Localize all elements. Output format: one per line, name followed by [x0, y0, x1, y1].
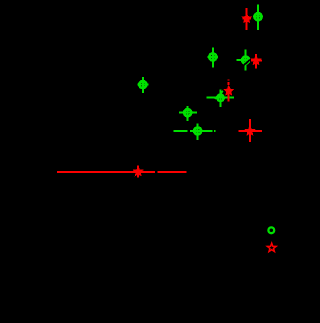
error bars G [138, 77, 149, 93]
error bars R4 [238, 119, 261, 142]
red star R4 [245, 126, 255, 135]
green circle GC4 [217, 95, 223, 101]
green circle GC2 [209, 53, 216, 60]
green diagonal arrow GC4 [215, 91, 223, 99]
green circle G [139, 81, 146, 88]
error bars R5 [57, 166, 187, 178]
error bars GC2 [207, 47, 218, 67]
green circle GC1 [255, 13, 262, 20]
green circle GC6 [194, 127, 201, 134]
green circle GC5 [184, 109, 191, 116]
error bars GC5 [179, 106, 197, 121]
black slash over GC3 [243, 58, 252, 66]
green circle GC3 [242, 57, 249, 64]
error bars GC4 [206, 89, 234, 106]
error bars R1 [242, 8, 251, 30]
error bars GC3 [236, 50, 250, 71]
error bars R2 [251, 54, 262, 69]
error bars GC6 [173, 123, 215, 140]
red star R3 [224, 86, 234, 95]
error bar R3 vertical dashed [228, 80, 230, 102]
red star R2 [251, 55, 261, 64]
legend green open circle [268, 227, 274, 233]
red star R1 [242, 13, 252, 22]
error bars GC1 [253, 5, 263, 31]
red star R5 [133, 166, 143, 175]
legend red open star [267, 243, 276, 251]
